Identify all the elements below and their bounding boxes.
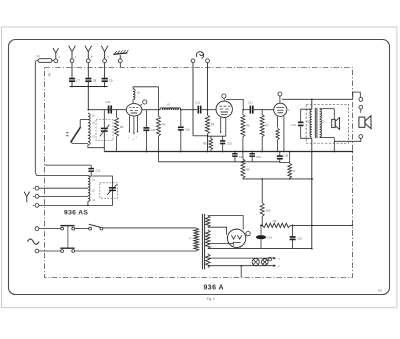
svg-text:C9: C9 <box>109 79 113 83</box>
wire switch to coil <box>72 142 88 144</box>
antenna A1 <box>55 53 57 59</box>
wire AS top <box>45 164 91 166</box>
wire HT drop <box>311 138 313 248</box>
tube V3 pins <box>277 116 279 127</box>
terminal AS1 <box>35 186 39 190</box>
dial lamp 2 <box>262 259 269 266</box>
terminal T3 <box>86 59 90 63</box>
resistor R8 <box>242 152 244 159</box>
wire anode 2 <box>208 227 227 234</box>
antenna A3 <box>87 52 89 59</box>
antenna A2 <box>71 52 73 59</box>
svg-text:432: 432 <box>378 288 383 292</box>
transformer T primary <box>310 109 312 137</box>
svg-text:936 A: 936 A <box>204 284 224 291</box>
wire AS tap2 <box>39 195 88 197</box>
terminal AS3 <box>35 204 39 208</box>
svg-text:Fg. 1: Fg. 1 <box>207 297 215 301</box>
wire coil bottom <box>88 145 104 152</box>
wire AS tap1 <box>39 187 88 189</box>
transformer T core <box>314 108 316 138</box>
svg-text:C10: C10 <box>105 100 110 104</box>
terminal P2 <box>206 59 210 63</box>
svg-text:C14: C14 <box>151 128 156 132</box>
wire V1 plate row <box>142 109 161 111</box>
capacitor C15 <box>222 136 224 140</box>
capacitor C9 <box>102 78 108 80</box>
trimmer dashed box AS <box>100 183 118 198</box>
wire speaker return <box>334 138 361 141</box>
tube V3 top cap circle 4 <box>279 96 281 103</box>
trimmer dashed box <box>96 120 113 141</box>
coil L9 <box>160 108 181 110</box>
wire osc drop <box>158 87 160 110</box>
svg-text:R9: R9 <box>273 219 277 223</box>
wire AS tap3 <box>39 204 88 206</box>
resistor R2 <box>116 110 118 118</box>
resistor Rb back bias <box>289 152 291 164</box>
input coil L5-L7 <box>88 113 90 145</box>
transformer TR core <box>201 214 203 269</box>
trimmer C13b <box>109 187 116 189</box>
internal speaker <box>320 108 335 110</box>
terminal T4 <box>103 59 107 63</box>
svg-text:C15: C15 <box>227 143 232 146</box>
wire cathode row <box>208 135 226 137</box>
frame coil L1-L3 <box>88 176 90 202</box>
tube V1 pin circle 2 <box>143 100 147 104</box>
svg-text:C11: C11 <box>195 100 200 104</box>
tube V2 pins <box>220 117 222 131</box>
svg-text:C8: C8 <box>93 79 97 83</box>
wire mains bottom to primary <box>75 250 197 252</box>
svg-text:C23: C23 <box>267 237 272 240</box>
dial lamp 1 <box>252 258 259 265</box>
svg-text:C19: C19 <box>256 156 261 159</box>
bias bus <box>159 161 280 163</box>
switch S1b <box>61 250 64 253</box>
transformer TR secondary S1 <box>206 216 210 228</box>
switch S2 <box>89 227 92 230</box>
wire detector row <box>243 109 250 111</box>
svg-text:R1: R1 <box>162 122 166 126</box>
capacitor C24 loop <box>301 109 312 122</box>
svg-text:R10: R10 <box>266 209 271 212</box>
wire heater lamps a <box>208 257 274 259</box>
svg-text:936 AS: 936 AS <box>64 209 88 216</box>
svg-text:R3: R3 <box>211 122 215 126</box>
rectifier smoothing C23 <box>260 225 262 234</box>
pickup spiral symbol <box>196 52 203 59</box>
wire heater rect <box>208 243 234 245</box>
wire plate drop <box>311 99 313 109</box>
transformer T secondary <box>320 109 322 137</box>
wire T4 down <box>104 63 106 78</box>
capacitor C18 <box>279 152 281 156</box>
wire HT minus bus <box>208 248 312 250</box>
capacitor C17 <box>249 106 251 114</box>
ground symbol <box>118 59 122 63</box>
wire T2 down <box>71 63 73 78</box>
resistor R9 <box>262 223 290 227</box>
tube V3 <box>274 103 287 116</box>
resistor R7 <box>261 110 263 115</box>
svg-text:C7: C7 <box>76 79 80 83</box>
rectifier tube V4 <box>227 229 245 247</box>
capacitor C21 <box>234 152 236 154</box>
wire HT to chassis <box>290 224 352 226</box>
output transformer dashed box <box>306 104 348 143</box>
wire to speaker terminals <box>353 92 361 99</box>
external speaker <box>359 117 365 127</box>
svg-text:C18: C18 <box>284 154 289 157</box>
wire P1 down <box>192 63 194 136</box>
svg-text:R: R <box>293 170 295 173</box>
tube V4 circle 5 <box>246 231 250 235</box>
capacitor C10 <box>108 106 110 114</box>
terminal LS2 <box>359 105 363 109</box>
terminal LS1 <box>359 98 363 102</box>
lamp circle label <box>268 257 271 260</box>
wave switch arm <box>72 128 80 141</box>
wire T3 down <box>87 63 89 78</box>
chassis dash-dot frame <box>45 68 353 278</box>
terminal LS3 <box>359 135 363 139</box>
wire AS coil bottom <box>87 201 89 205</box>
capacitor C8 <box>85 78 91 80</box>
capacitor C16 <box>180 110 182 127</box>
wire V2 plate top <box>226 99 243 109</box>
svg-text:C24: C24 <box>291 124 296 127</box>
wire grid line <box>88 109 126 111</box>
wire left drop <box>35 61 88 176</box>
wire antenna cap bus <box>70 86 108 88</box>
terminal M2 <box>35 249 39 253</box>
wire down to input coil <box>87 87 89 110</box>
capacitor C12 <box>90 165 92 168</box>
resistor R10 <box>261 179 263 203</box>
capacitor C14 <box>145 110 147 128</box>
antenna AS <box>26 197 28 203</box>
wire mains to transformer primary <box>103 227 196 229</box>
junction dots <box>87 86 89 88</box>
wire lamp drop to chassis <box>240 266 242 278</box>
wire C11 to V2 <box>202 109 216 111</box>
schematic frame <box>9 40 390 295</box>
wire mains top <box>39 228 61 230</box>
AC source symbol <box>28 239 40 244</box>
resistor R3 <box>205 115 209 134</box>
terminal AS2 <box>35 195 39 199</box>
wire L8 top <box>133 86 159 88</box>
svg-text:C25: C25 <box>297 238 302 241</box>
resistor R1 <box>158 110 160 117</box>
tube V2 top cap circle 3 <box>223 98 225 101</box>
svg-text:R7: R7 <box>266 123 270 127</box>
wire mains bottom <box>39 250 61 252</box>
wire minus rail <box>243 177 313 180</box>
resistor R5 <box>210 136 212 138</box>
switch gang link <box>67 226 69 249</box>
antenna A4 <box>104 52 106 59</box>
svg-text:C12: C12 <box>96 170 101 173</box>
terminal T1 <box>54 59 58 63</box>
svg-text:R6: R6 <box>246 123 250 127</box>
tube V4 pins <box>239 248 241 249</box>
smoothing C25 <box>292 225 294 236</box>
transformer TR secondary S3 <box>206 254 210 268</box>
wire P1 to R3 <box>193 135 208 137</box>
wire to C11 <box>181 109 197 111</box>
wire AS tuning loop <box>88 176 113 205</box>
wire <box>75 228 89 230</box>
trimmer C13 <box>103 110 105 128</box>
ground bus <box>104 151 352 153</box>
wire secondary bottom <box>320 137 335 139</box>
fuse link F1 <box>38 59 52 63</box>
switch S1a <box>61 227 64 230</box>
svg-text:C17: C17 <box>248 101 253 105</box>
tube V2 <box>216 101 232 117</box>
terminal T2 <box>70 59 74 63</box>
tube V1 <box>126 104 142 116</box>
capacitor C19 <box>251 152 253 154</box>
wire anode 1 <box>208 216 243 230</box>
capacitor C11 <box>197 106 199 114</box>
wire V3 plate to output <box>282 98 353 100</box>
transformer TR primary <box>194 228 199 251</box>
tube V1 pins <box>128 115 130 131</box>
terminal P1 <box>191 59 195 63</box>
capacitor C7 <box>69 78 75 80</box>
svg-text:C16: C16 <box>185 127 190 131</box>
oscillator coil L8 <box>132 87 134 89</box>
transformer TR secondary S2 <box>206 230 210 249</box>
resistor V3 cathode <box>276 128 279 140</box>
resistor R6 <box>242 110 244 115</box>
wave switch tap wire <box>80 119 88 121</box>
wire P2 down <box>207 63 209 115</box>
terminal M1 <box>35 227 39 231</box>
wire heater lamps b <box>208 265 274 267</box>
